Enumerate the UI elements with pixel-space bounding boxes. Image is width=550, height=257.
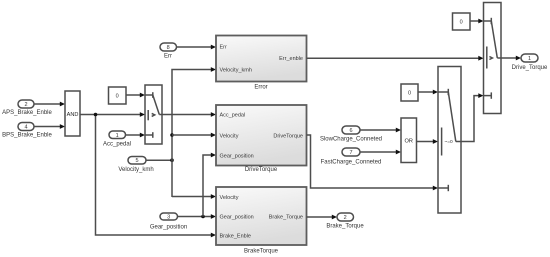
wire Velocity_kmh trunk to Error / DriveTorque / BrakeTorque <box>146 67 216 199</box>
svg-text:Velocity: Velocity <box>220 195 239 201</box>
svg-text:BrakeTorque: BrakeTorque <box>244 249 279 255</box>
svg-text:Error: Error <box>254 85 267 91</box>
svg-text:~=0: ~=0 <box>444 139 453 145</box>
wire Err_enble to switch3 control <box>307 56 484 61</box>
svg-text:Gear_position: Gear_position <box>220 214 254 220</box>
svg-text:Velocity_kmh: Velocity_kmh <box>118 167 153 173</box>
svg-text:Gear_position: Gear_position <box>220 153 254 159</box>
svg-text:3: 3 <box>167 215 170 221</box>
svg-text:Acc_pedal: Acc_pedal <box>103 142 131 148</box>
outport 1 Drive_Torque <box>512 54 548 71</box>
svg-text:OR: OR <box>405 138 413 144</box>
svg-text:2: 2 <box>344 215 347 221</box>
svg-text:DriveTorque: DriveTorque <box>245 167 278 173</box>
wire DriveTorque out to switch2 bottom <box>307 135 439 190</box>
svg-text:Velocity_kmh: Velocity_kmh <box>220 68 252 74</box>
inport 8 Err <box>160 43 177 60</box>
wire BrakeTorque out to outport 2 <box>307 215 338 220</box>
svg-text:Drive_Torque: Drive_Torque <box>512 65 548 71</box>
svg-text:4: 4 <box>24 125 27 131</box>
svg-text:0: 0 <box>460 19 463 25</box>
svg-text:FastCharge_Conneted: FastCharge_Conneted <box>321 160 382 166</box>
constant 0 (middle) <box>401 84 418 101</box>
switch Switch1 <box>145 85 162 144</box>
svg-text:2: 2 <box>24 102 27 108</box>
wire Acc_pedal to switch1 bottom <box>126 133 146 138</box>
svg-text:Err: Err <box>164 54 172 60</box>
svg-text:Brake_Torque: Brake_Torque <box>326 224 364 230</box>
svg-text:BPS_Brake_Enble: BPS_Brake_Enble <box>2 133 52 139</box>
svg-text:0: 0 <box>408 91 411 97</box>
wire Err to Error block <box>177 45 217 50</box>
wire OR to switch2 control <box>417 139 439 144</box>
inport 1 Acc_pedal <box>103 131 131 148</box>
wire 7 to OR <box>360 150 401 155</box>
svg-text:7: 7 <box>349 150 352 156</box>
wire switch2 out to switch3 bottom <box>461 93 484 141</box>
svg-text:Brake_Enble: Brake_Enble <box>220 233 252 239</box>
svg-text:1: 1 <box>116 133 119 139</box>
wire AND to switch1 control with branch to Brake_Enble <box>80 112 216 237</box>
wire switch1 out to DriveTorque Acc_pedal <box>162 112 216 117</box>
wire const0 to switch2 top <box>418 90 438 95</box>
wire switch3 out to outport 1 <box>501 56 521 61</box>
svg-text:6: 6 <box>349 128 352 134</box>
inport 4 BPS_Brake_Enble <box>2 123 52 139</box>
svg-text:SlowCharge_Conneted: SlowCharge_Conneted <box>320 137 382 143</box>
svg-text:8: 8 <box>167 45 170 51</box>
svg-text:Brake_Torque: Brake_Torque <box>269 214 303 220</box>
svg-text:AND: AND <box>67 112 79 118</box>
svg-text:5: 5 <box>135 158 138 164</box>
wire const0 to switch1 top <box>126 93 145 98</box>
inport 7 FastCharge_Conneted <box>321 148 382 166</box>
logic OR <box>401 118 417 163</box>
inport 5 Velocity_kmh <box>118 157 153 174</box>
logic AND <box>65 91 80 136</box>
switch Switch2 <box>438 67 461 214</box>
subsystem BrakeTorque <box>216 187 307 255</box>
svg-text:0: 0 <box>116 93 119 99</box>
svg-text:DriveTorque: DriveTorque <box>273 133 303 139</box>
switch Switch3 <box>484 3 502 114</box>
svg-text:Err: Err <box>220 45 228 51</box>
wire 6 to OR <box>360 128 401 133</box>
subsystem Error <box>216 36 307 91</box>
inport 3 Gear_position <box>150 213 187 231</box>
svg-text:Velocity: Velocity <box>220 133 239 139</box>
svg-text:1: 1 <box>528 56 531 62</box>
svg-text:Err_enble: Err_enble <box>279 56 303 62</box>
subsystem DriveTorque <box>216 105 307 173</box>
svg-text:APS_Brake_Enble: APS_Brake_Enble <box>2 110 52 116</box>
wire const0 to switch3 top <box>470 19 484 24</box>
constant 0 (top right) <box>453 13 471 30</box>
outport 2 Brake_Torque <box>326 213 364 230</box>
svg-text:Acc_pedal: Acc_pedal <box>220 112 246 118</box>
constant 0 (left) <box>109 87 127 104</box>
wire Gear_position to DriveTorque and BrakeTorque <box>178 153 217 219</box>
inport 6 SlowCharge_Conneted <box>320 126 382 143</box>
svg-text:Gear_position: Gear_position <box>150 225 187 231</box>
inport 2 APS_Brake_Enble <box>2 100 52 116</box>
wire APS to AND <box>34 102 65 107</box>
wire BPS to AND <box>34 124 65 129</box>
